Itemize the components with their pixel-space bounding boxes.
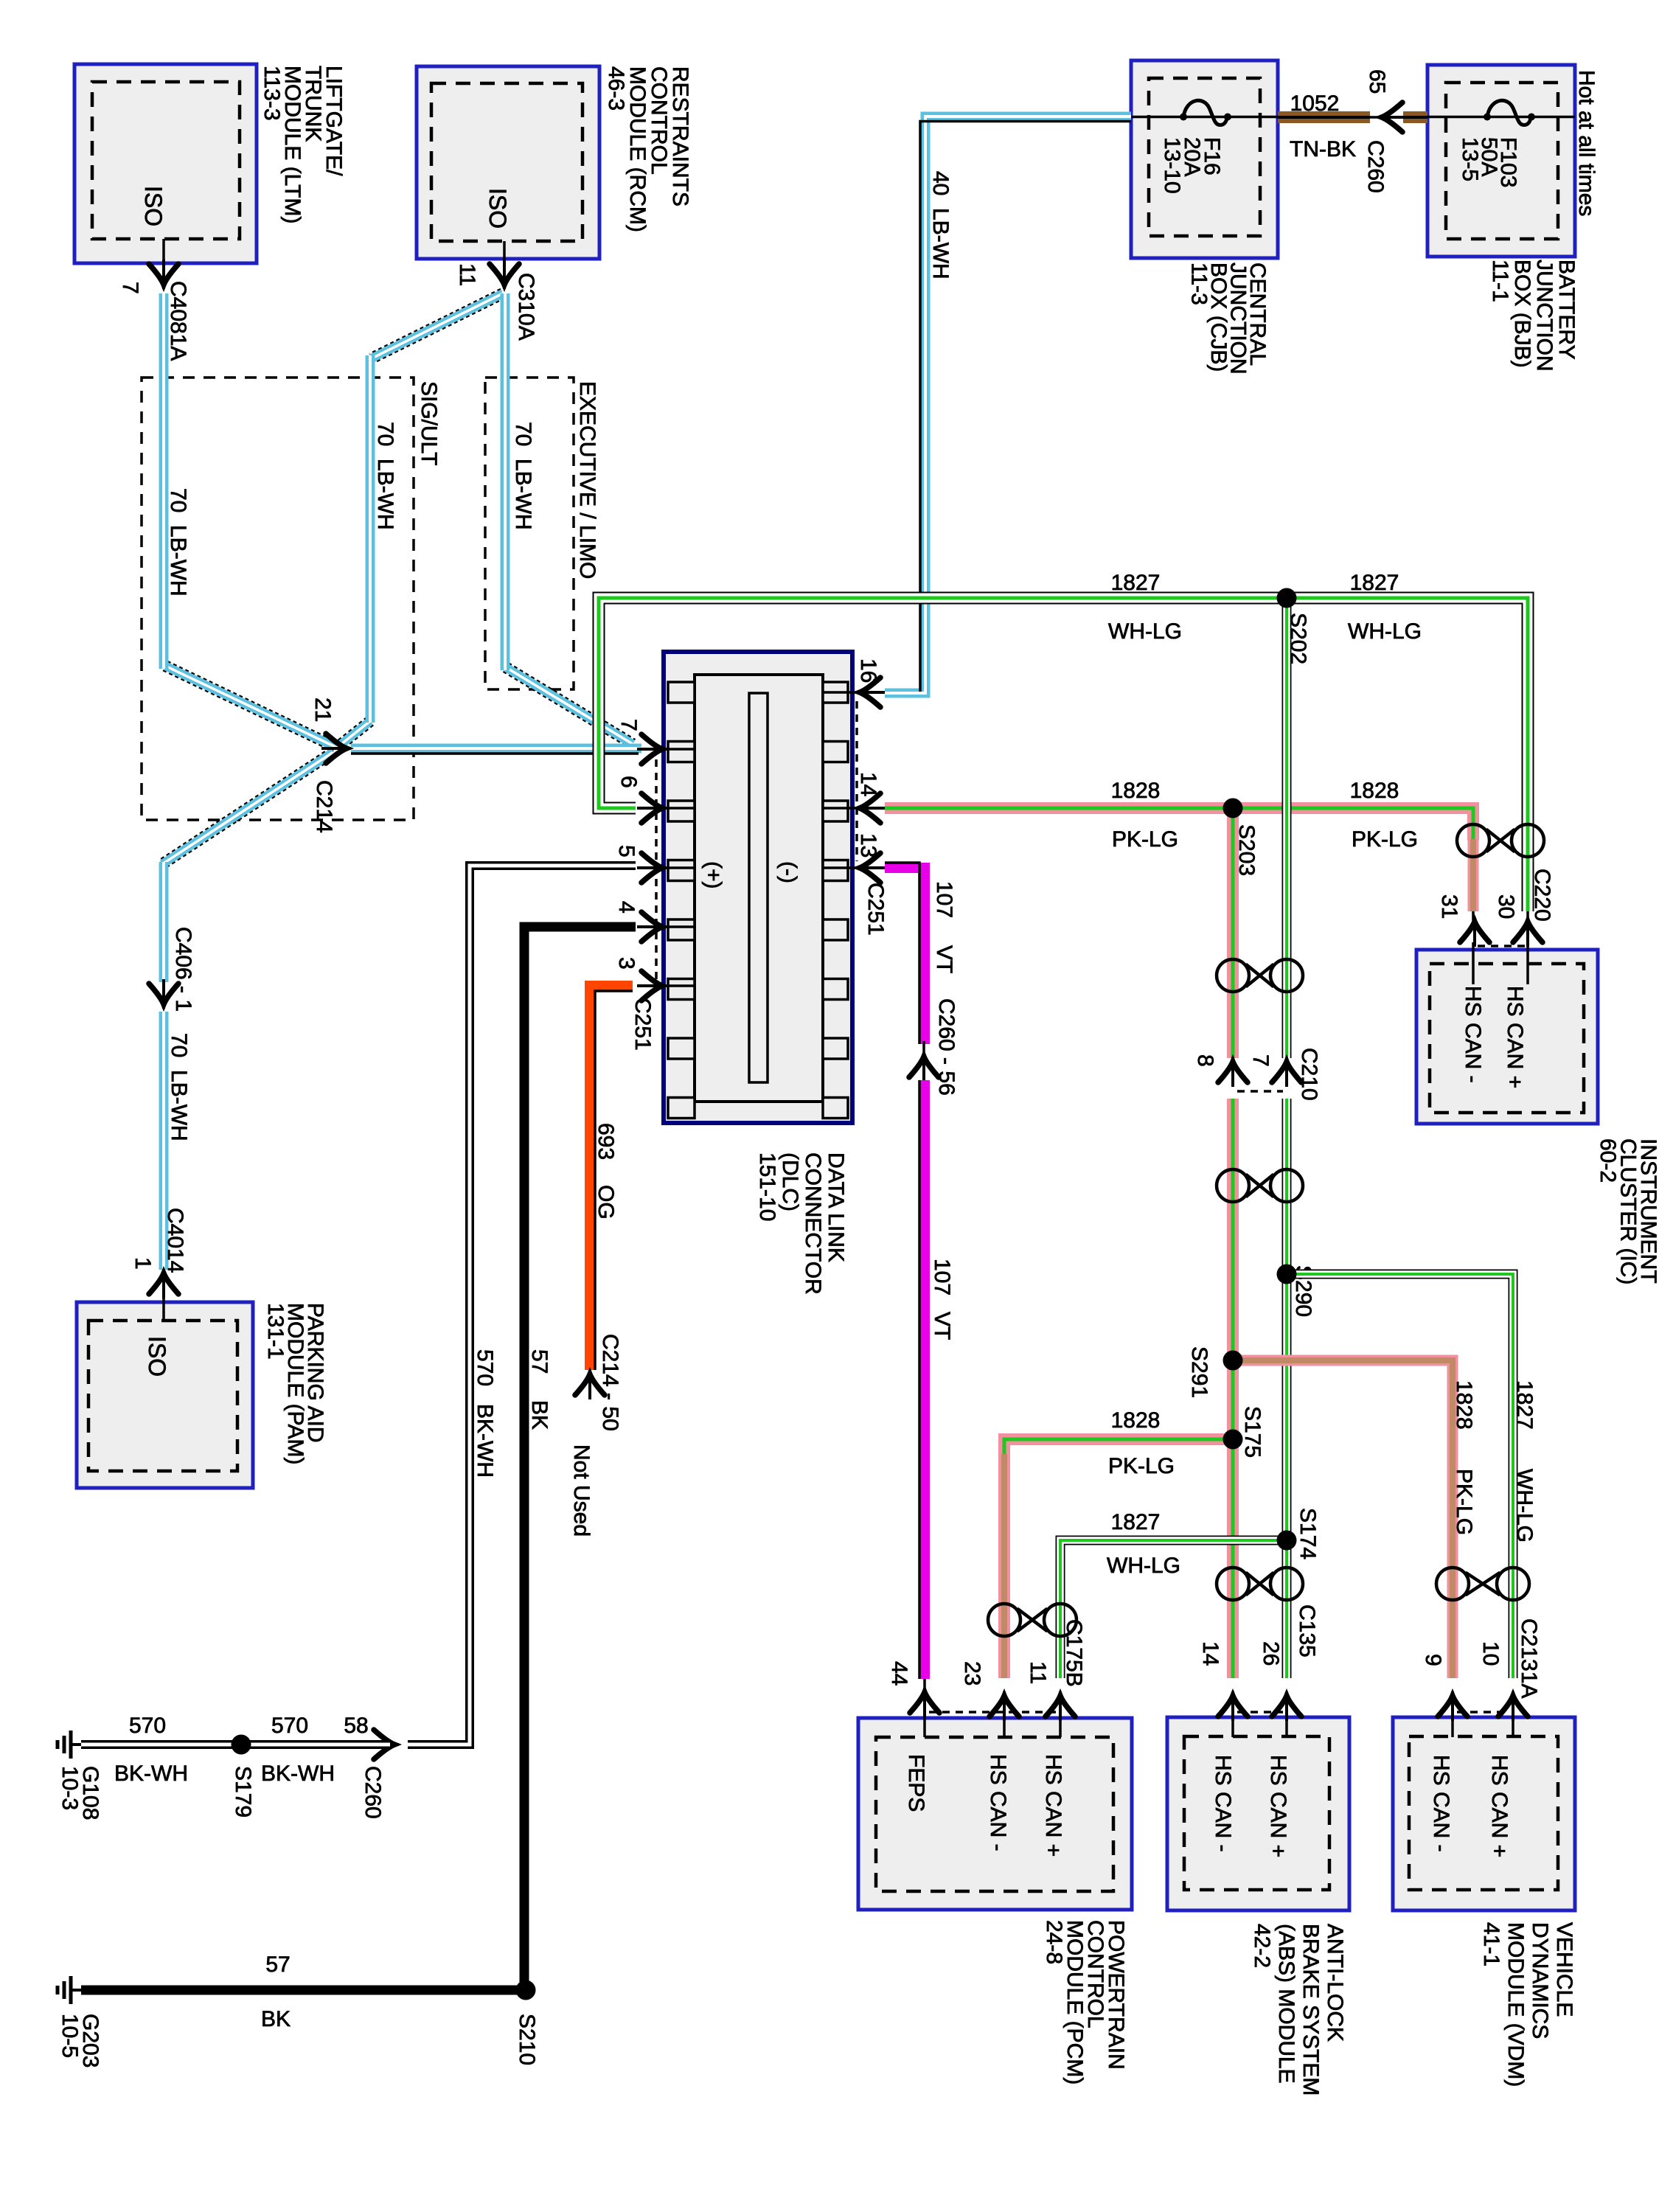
svg-text:S179: S179 (231, 1766, 255, 1818)
VDM pin10 arrow (1512, 1691, 1514, 1721)
svg-text:JUNCTION: JUNCTION (1532, 260, 1557, 372)
splice S174 (1277, 1531, 1297, 1551)
svg-text:1828: 1828 (1452, 1380, 1476, 1430)
wire 1828 PK-LG S203 down to C210 pin8 (1227, 814, 1239, 1058)
svg-text:ISO: ISO (140, 186, 167, 226)
module BJB box (1427, 65, 1575, 257)
svg-text:10-3: 10-3 (58, 1766, 82, 1810)
svg-text:C210: C210 (1297, 1048, 1321, 1101)
svg-text:13-5: 13-5 (1458, 137, 1482, 181)
svg-text:BOX (BJB): BOX (BJB) (1510, 260, 1534, 368)
svg-text:HS CAN +: HS CAN + (1266, 1755, 1290, 1857)
wire hot feed line through BJB fuse (1427, 116, 1575, 119)
svg-text:S174: S174 (1295, 1508, 1320, 1559)
DLC pin6 arrow (637, 807, 667, 810)
connector C210 pin7 arrow (1285, 1057, 1288, 1087)
wire 1828 below C210 to ABS pin14 (1227, 1099, 1239, 1678)
twisted pair above C210 (1217, 959, 1249, 992)
svg-text:9: 9 (1421, 1654, 1445, 1666)
IC pin stubs (1472, 942, 1475, 984)
DLC pin3 arrow (637, 984, 667, 987)
wire 70 LB-WH C214 to PAM (diagonal + vertical) (162, 752, 333, 864)
svg-text:BK-WH: BK-WH (473, 1404, 497, 1478)
wire 57 BK pin4 to S210 to G203 (81, 927, 636, 1990)
svg-text:C214: C214 (312, 780, 336, 833)
svg-text:1: 1 (131, 1257, 155, 1270)
module RCM box (417, 66, 599, 259)
module PCM box (858, 1718, 1132, 1910)
svg-text:30: 30 (1494, 894, 1518, 919)
connector C310A arrow (503, 260, 506, 289)
svg-text:570: 570 (271, 1714, 308, 1738)
svg-text:(DLC): (DLC) (778, 1152, 802, 1211)
IC pin31 arrow (1472, 911, 1475, 923)
svg-text:C135: C135 (1295, 1604, 1319, 1658)
svg-text:C251: C251 (863, 883, 888, 936)
VDM pin9 arrow (1451, 1691, 1454, 1721)
connector C406-1 arrow (162, 979, 165, 1009)
svg-text:26: 26 (1259, 1641, 1283, 1666)
DLC pin16 arrow (855, 691, 885, 694)
svg-text:HS CAN -: HS CAN - (1211, 1755, 1235, 1852)
connector C260 arrow (bottom) (369, 1743, 399, 1746)
dashed bracket VDM (1457, 1711, 1509, 1714)
svg-text:C2131A: C2131A (1517, 1618, 1541, 1698)
svg-text:107: 107 (930, 1259, 954, 1295)
svg-text:BK: BK (261, 2007, 291, 2031)
svg-text:570: 570 (473, 1349, 497, 1386)
connector C214-50 arrow (not used) (588, 1370, 591, 1399)
DLC pin7 arrow (637, 748, 667, 751)
splice S210 (516, 1980, 536, 2000)
svg-text:151-10: 151-10 (755, 1152, 779, 1221)
PCM pin23 arrow (1003, 1691, 1006, 1721)
svg-text:CONNECTOR: CONNECTOR (801, 1152, 825, 1295)
svg-text:6: 6 (616, 776, 641, 788)
ground G108 (71, 1743, 81, 1746)
svg-text:70 LB-WH: 70 LB-WH (511, 422, 535, 530)
svg-text:FEPS: FEPS (904, 1754, 928, 1812)
svg-text:BATTERY: BATTERY (1554, 260, 1579, 360)
splice S291 (1223, 1351, 1243, 1371)
wire 70 LB-WH C214 to DLC pin 7 (351, 744, 641, 754)
dashed bracket C220 (1478, 945, 1525, 947)
svg-text:HS CAN -: HS CAN - (1461, 986, 1485, 1083)
svg-text:C310A: C310A (514, 273, 538, 341)
svg-text:3: 3 (614, 957, 639, 970)
svg-text:70 LB-WH: 70 LB-WH (167, 1033, 191, 1141)
connector C210 pin8 arrow (1231, 1057, 1234, 1087)
svg-text:13: 13 (856, 833, 880, 858)
svg-text:C260: C260 (1363, 140, 1388, 193)
svg-text:1827: 1827 (1111, 571, 1161, 595)
svg-text:Not Used: Not Used (569, 1444, 594, 1537)
svg-text:C251: C251 (630, 998, 655, 1051)
svg-text:31: 31 (1437, 894, 1461, 919)
svg-text:DATA LINK: DATA LINK (824, 1152, 848, 1262)
svg-text:C406 - 1: C406 - 1 (171, 927, 195, 1012)
DLC connector body (664, 652, 852, 1123)
dashed bracket C210 (1237, 1090, 1283, 1093)
wire 1828 tan vertical to IC pin31 (1468, 839, 1479, 911)
svg-text:WH-LG: WH-LG (1348, 619, 1422, 644)
twisted pair C220 (1457, 824, 1489, 857)
svg-text:Hot at all times: Hot at all times (1574, 70, 1599, 216)
dashed bracket ABS (1237, 1711, 1283, 1714)
svg-text:113-3: 113-3 (260, 66, 284, 121)
svg-text:BK: BK (527, 1400, 552, 1430)
dashed bracket C251 right (855, 701, 858, 861)
svg-text:DYNAMICS: DYNAMICS (1528, 1922, 1552, 2039)
wire 1828 PK-LG S175 branch to PCM pin23 (1004, 1439, 1233, 1678)
module CJB box (1131, 60, 1278, 258)
connector C4014 arrow (162, 1269, 165, 1298)
wire LTM stub (162, 239, 165, 274)
svg-text:1827: 1827 (1512, 1380, 1537, 1430)
DLC pin5 arrow (637, 866, 667, 869)
svg-text:WH-LG: WH-LG (1512, 1469, 1537, 1543)
svg-text:1052: 1052 (1290, 91, 1340, 116)
svg-text:S175: S175 (1240, 1406, 1265, 1458)
svg-text:570: 570 (129, 1714, 166, 1738)
svg-text:8: 8 (1193, 1054, 1217, 1067)
fuse F103 50A (1484, 114, 1491, 121)
svg-text:107: 107 (932, 881, 956, 918)
module IC box (1416, 950, 1598, 1124)
wire RCM stub (503, 241, 506, 274)
wire 1827 WH-LG S290 branch to VDM pin10 (1287, 1274, 1513, 1678)
ground G203 (71, 1989, 81, 1992)
svg-text:VEHICLE: VEHICLE (1552, 1922, 1576, 2017)
wire 1828 PK-LG pin14 to C220 corner (885, 808, 1473, 841)
svg-text:TN-BK: TN-BK (1290, 137, 1356, 161)
dashed bracket C251 left (655, 759, 658, 981)
svg-text:(ABS) MODULE: (ABS) MODULE (1274, 1924, 1298, 2084)
svg-text:C4014: C4014 (163, 1208, 187, 1273)
dashed region SIG/ULT (142, 378, 414, 820)
svg-text:C260 - 56: C260 - 56 (934, 998, 959, 1096)
svg-text:7: 7 (616, 719, 641, 731)
module PAM box (77, 1302, 253, 1488)
wire 1827 WH-LG S174 branch to PCM pin11 (1060, 1540, 1287, 1678)
svg-text:VT: VT (930, 1312, 954, 1340)
svg-text:46-3: 46-3 (604, 66, 628, 111)
svg-text:WH-LG: WH-LG (1107, 1554, 1180, 1578)
svg-text:WH-LG: WH-LG (1108, 619, 1182, 644)
splice S179 (232, 1735, 251, 1755)
svg-text:PK-LG: PK-LG (1452, 1469, 1476, 1535)
svg-text:42-2: 42-2 (1250, 1924, 1274, 1968)
wire 570 BK-WH C260 to S179 to G108 (81, 1740, 390, 1749)
wire 107 VT below C260-56 (919, 1080, 930, 1679)
connector C260-56 arrow (922, 1041, 925, 1082)
svg-text:1828: 1828 (1111, 1408, 1161, 1433)
PCM pin11 arrow (1059, 1691, 1062, 1721)
wire line through CJB fuse (1131, 116, 1278, 119)
svg-text:ANTI-LOCK: ANTI-LOCK (1323, 1924, 1347, 2042)
ABS pin26 arrow (1285, 1691, 1288, 1721)
DLC pin14 arrow (855, 807, 885, 810)
svg-text:23: 23 (960, 1661, 984, 1686)
twisted pair below C210 (1217, 1169, 1249, 1202)
svg-text:11-1: 11-1 (1488, 260, 1512, 302)
module ABS box (1167, 1717, 1349, 1910)
connector C260 arrow (top) (1377, 116, 1407, 119)
svg-text:14: 14 (856, 772, 880, 796)
splice S203 (1223, 799, 1243, 818)
svg-text:7: 7 (118, 282, 142, 294)
svg-text:693: 693 (594, 1123, 618, 1160)
svg-text:BK-WH: BK-WH (261, 1761, 335, 1786)
svg-text:C175B: C175B (1062, 1619, 1086, 1687)
svg-text:HS CAN +: HS CAN + (1503, 986, 1527, 1088)
svg-text:1828: 1828 (1111, 779, 1161, 803)
svg-text:PK-LG: PK-LG (1112, 827, 1178, 852)
wire 70 LB-WH SIG/ULT branch (diagonal then vertical) (372, 293, 503, 358)
PCM pin44 arrow (923, 1688, 926, 1717)
IC pin30 arrow (1526, 911, 1529, 923)
wire 570 BK-WH pin5 to C260 (408, 866, 636, 1745)
svg-text:44: 44 (887, 1661, 911, 1686)
svg-text:S291: S291 (1187, 1346, 1211, 1398)
svg-text:BK-WH: BK-WH (114, 1761, 188, 1786)
svg-text:60-2: 60-2 (1596, 1138, 1620, 1183)
svg-text:HS CAN -: HS CAN - (986, 1754, 1010, 1851)
svg-text:(+): (+) (701, 861, 726, 889)
connector C4081A arrow (162, 260, 165, 289)
svg-text:14: 14 (1198, 1641, 1222, 1666)
wire 107 VT pin13 to PCM pin44 (885, 868, 925, 1044)
svg-text:SIG/ULT: SIG/ULT (417, 381, 441, 465)
fuse F16 20A (1180, 114, 1187, 121)
svg-text:MODULE (VDM): MODULE (VDM) (1503, 1922, 1528, 2087)
svg-text:10-5: 10-5 (58, 2014, 82, 2058)
svg-text:57: 57 (265, 1952, 290, 1977)
svg-text:OG: OG (594, 1185, 618, 1220)
svg-text:PK-LG: PK-LG (1108, 1454, 1175, 1478)
splice S290 (1277, 1265, 1297, 1284)
svg-text:1827: 1827 (1111, 1510, 1161, 1534)
svg-text:C220: C220 (1530, 869, 1554, 922)
svg-text:40 LB-WH: 40 LB-WH (928, 171, 953, 279)
svg-text:PK-LG: PK-LG (1352, 827, 1418, 852)
twisted pair C2131A (1436, 1568, 1469, 1600)
wire 1827 below C210 to ABS pin26 (1282, 1099, 1292, 1678)
ABS pin14 arrow (1231, 1691, 1234, 1721)
svg-text:16: 16 (856, 658, 880, 683)
DLC pin stubs (662, 748, 696, 751)
splice S175 (1223, 1430, 1243, 1450)
svg-text:C4081A: C4081A (166, 281, 190, 361)
svg-text:C260: C260 (361, 1766, 385, 1819)
svg-text:13-10: 13-10 (1160, 137, 1184, 194)
splice S202 (1277, 588, 1297, 608)
wire 70 LB-WH from LTM (vertical + diagonal to C214) (165, 666, 335, 747)
svg-text:70 LB-WH: 70 LB-WH (373, 422, 397, 530)
svg-text:HS CAN +: HS CAN + (1487, 1755, 1512, 1857)
wire 1827 WH-LG S202 down to C210 pin7 (1282, 605, 1292, 1058)
svg-text:HS CAN -: HS CAN - (1429, 1755, 1453, 1852)
svg-text:HS CAN +: HS CAN + (1041, 1754, 1065, 1857)
svg-text:58: 58 (344, 1714, 368, 1738)
wire 40 LB-WH CJB to DLC pin16 (885, 116, 1131, 693)
svg-text:131-1: 131-1 (263, 1303, 288, 1360)
wire 693 OG pin3 Not Used (590, 986, 633, 1370)
svg-text:11-3: 11-3 (1187, 262, 1211, 305)
svg-text:70 LB-WH: 70 LB-WH (166, 488, 190, 597)
svg-text:21: 21 (310, 698, 335, 722)
svg-text:7: 7 (1248, 1054, 1273, 1067)
svg-text:S210: S210 (515, 2014, 539, 2065)
svg-text:ISO: ISO (484, 188, 511, 229)
DLC pin4 arrow (637, 925, 667, 928)
dashed bracket PCM (929, 1711, 1056, 1714)
svg-text:ISO: ISO (144, 1336, 170, 1377)
wire PAM stub (162, 1278, 165, 1321)
svg-text:1828: 1828 (1350, 779, 1399, 803)
twisted pair above ABS (1217, 1568, 1249, 1600)
wire 1827 WH-LG pin6 loop (599, 598, 1528, 911)
svg-text:(-): (-) (776, 861, 801, 883)
twisted pair C175B (988, 1604, 1020, 1636)
svg-text:1827: 1827 (1350, 571, 1399, 595)
svg-text:11: 11 (455, 263, 479, 286)
svg-text:BRAKE SYSTEM: BRAKE SYSTEM (1298, 1924, 1323, 2096)
dashed region EXECUTIVE/LIMO (485, 378, 574, 689)
wire 65 (brown) BJB to C260 (1403, 111, 1427, 123)
module VDM box (1393, 1717, 1575, 1910)
svg-text:10: 10 (1478, 1641, 1503, 1666)
svg-text:57: 57 (527, 1349, 552, 1374)
svg-text:4: 4 (614, 901, 639, 914)
svg-text:24-8: 24-8 (1042, 1920, 1066, 1964)
wire 1828 PK-LG S291 branch to VDM pin9 (1233, 1360, 1453, 1678)
svg-text:EXECUTIVE / LIMO: EXECUTIVE / LIMO (575, 381, 599, 579)
svg-text:65: 65 (1365, 69, 1389, 94)
svg-text:5: 5 (614, 845, 639, 858)
svg-text:VT: VT (932, 945, 956, 973)
wire 70 LB-WH EXECUTIVE/LIMO branch (vertical then diagonal to pin7) (506, 667, 633, 744)
DLC pin13 arrow (855, 866, 885, 869)
module LTM box (74, 64, 257, 263)
wire 1052 TN-BK C260 to CJB (1370, 116, 1377, 119)
wire 70 LB-WH to C4014 (159, 1012, 169, 1270)
svg-text:11: 11 (1026, 1661, 1050, 1684)
svg-text:41-1: 41-1 (1479, 1922, 1503, 1966)
connector C214 arrow (321, 747, 351, 750)
svg-text:C214 - 50: C214 - 50 (598, 1334, 622, 1431)
